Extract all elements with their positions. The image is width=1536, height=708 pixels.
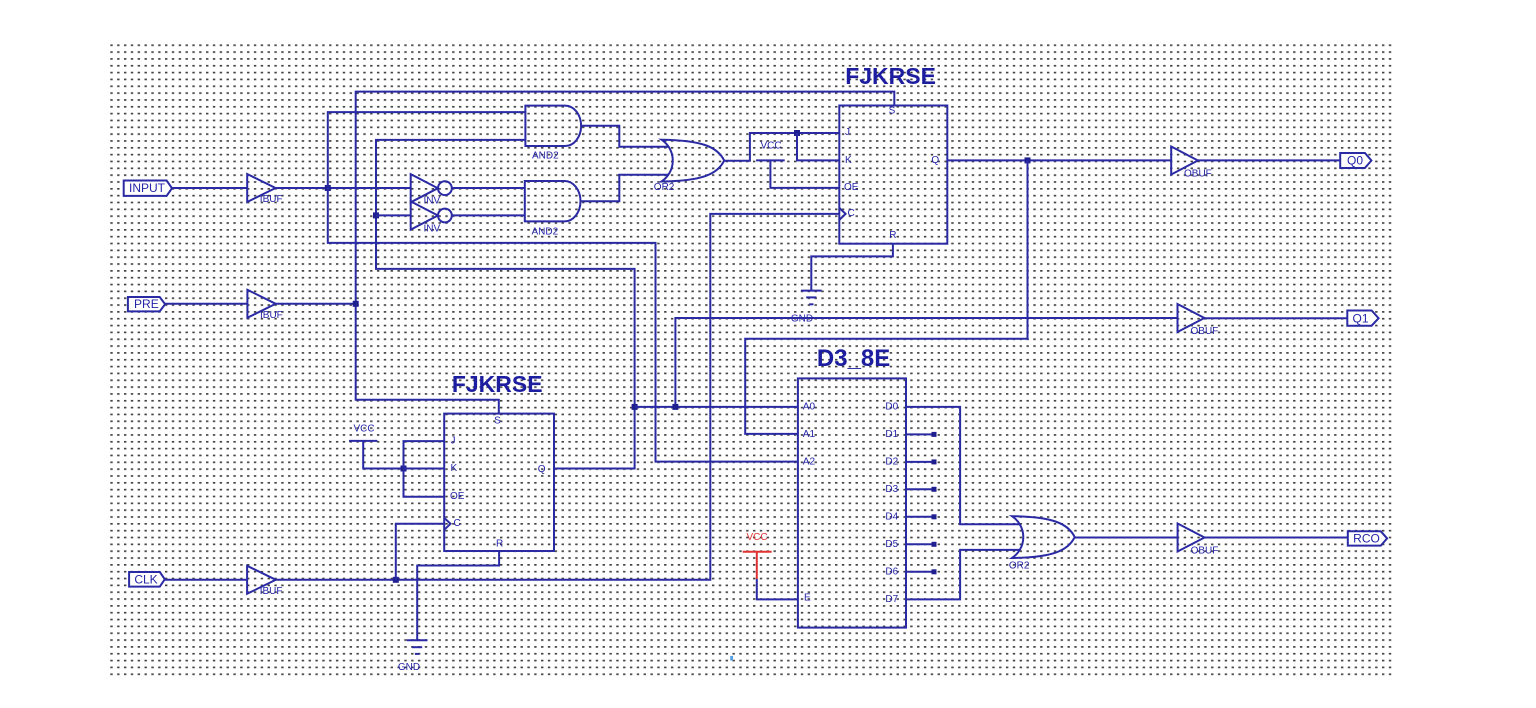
wire J-K-OE tie vertical [404,441,445,497]
svg-text:E: E [804,593,811,604]
svg-text:K: K [845,155,852,166]
wire INV1 out to AND2 upper [452,187,525,189]
svg-text:FJKRSE: FJKRSE [845,63,936,89]
inverter INV (lower) [411,201,452,234]
wire D0 to OR2 top input [906,407,1020,524]
wire top FF R to ground [811,244,893,291]
svg-text:GND: GND [398,662,420,673]
svg-text:INV: INV [424,224,441,235]
wire Q1 net from A0 line to OBUF [675,318,1177,407]
svg-text:D5: D5 [885,539,898,550]
svg-text:OBUF: OBUF [1191,326,1219,337]
pin stub D4 [906,514,937,519]
pin stub D3 [906,487,937,492]
buffer IBUF (PRE) [247,290,282,321]
flip-flop FJKRSE (lower) [444,371,554,551]
svg-text:A1: A1 [803,429,816,440]
wire IBUF out to INV input, through junction [276,187,411,189]
svg-text:K: K [451,463,458,474]
power VCC (red) [743,532,772,579]
svg-text:D7: D7 [885,594,898,605]
svg-text:OE: OE [450,491,465,502]
wire INV2 out to AND2 lower [452,214,525,216]
wire INV2 input stub [376,214,411,216]
input port PRE [128,297,165,311]
svg-text:VCC: VCC [746,532,767,543]
svg-text:D4: D4 [885,512,898,523]
svg-text:J: J [845,127,850,138]
junction PRE net [353,301,359,307]
decoder D3_8E [798,345,906,628]
svg-text:CLK: CLK [134,572,157,586]
junction J-K tie [794,130,800,136]
wire PRE net riser and S feeds [356,92,895,414]
svg-text:A0: A0 [803,402,816,413]
svg-text:A2: A2 [803,457,816,468]
svg-text:RCO: RCO [1353,532,1380,546]
wire INV2 input net vertical [376,140,635,469]
wire A0 line [635,406,798,408]
buffer IBUF (CLK) [247,566,282,597]
junction A0-Q1 tap [672,404,678,410]
svg-text:Q0: Q0 [1347,154,1363,168]
wire Q0 net down to A1 [745,160,1027,434]
pin stub D1 [906,432,937,437]
buffer OBUF (RCO) [1178,524,1219,557]
ground GND (top) [791,291,822,325]
wire VCC to E pin [757,579,798,599]
input port INPUT [124,181,172,196]
wire K stub (lower FF) [404,468,445,470]
inverter INV (upper) [411,174,452,206]
and-gate AND2 (lower) [525,181,581,238]
junction A0 net at Q riser [632,404,638,410]
svg-text:IBUF: IBUF [260,310,283,321]
svg-text:OBUF: OBUF [1184,169,1212,180]
svg-text:R: R [889,230,896,241]
wire OBUF to RCO port [1205,537,1348,539]
buffer OBUF (Q0) [1171,147,1212,180]
svg-text:VCC: VCC [353,424,374,435]
wire lower FF C tap [396,524,444,580]
svg-text:S: S [494,416,501,427]
ground GND (lower) [398,640,428,673]
svg-text:OR2: OR2 [654,182,675,193]
power VCC (top) [756,141,839,188]
wire OR2 out to OBUF [1075,537,1178,539]
wire OBUF to Q0 port [1198,159,1340,161]
svg-text:S: S [889,105,896,116]
wire AND2 lower out to OR2 bottom input [581,175,669,202]
input port CLK [129,572,165,587]
buffer OBUF (Q1) [1178,304,1219,337]
wire CLK IBUF out to top FF C riser [276,214,840,580]
pin stub D2 [906,459,937,464]
wire OBUF to Q1 port [1204,317,1347,319]
svg-text:Q: Q [931,155,939,166]
svg-text:Q1: Q1 [1352,311,1368,325]
junction INV2 input tap [373,212,379,218]
buffer IBUF (INPUT) [247,174,282,205]
svg-text:D3: D3 [885,484,898,495]
junction J-K-OE tie (lower FF) [401,466,407,472]
svg-text:OBUF: OBUF [1191,546,1219,557]
stray artifact [730,656,733,661]
svg-text:D2: D2 [885,457,898,468]
svg-text:IBUF: IBUF [260,586,283,597]
svg-text:C: C [848,208,855,219]
svg-text:Q: Q [538,464,546,475]
svg-text:OR2: OR2 [1009,561,1030,572]
or-gate OR2 (lower) [1009,516,1075,572]
svg-text:D1: D1 [885,429,898,440]
wire top FF Q to OBUF [947,159,1171,161]
flip-flop FJKRSE (top) [839,63,947,244]
wire AND2 upper out to OR2 top input [582,126,669,147]
svg-text:INPUT: INPUT [129,181,166,195]
junction CLK net [393,577,399,583]
wire OR2 out up to J [724,133,839,161]
svg-text:C: C [454,518,461,529]
or-gate OR2 (upper) [654,140,724,194]
output port Q1 [1347,311,1378,326]
junction on INPUT net [325,185,331,191]
svg-text:FJKRSE: FJKRSE [452,371,543,397]
wire PRE port to IBUF [165,303,247,305]
wire D7 to OR2 bottom input [906,550,1020,600]
svg-text:INV: INV [424,195,441,206]
svg-text:R: R [496,538,503,549]
svg-text:VCC: VCC [760,141,781,152]
pin stub D5 [906,542,937,547]
and-gate AND2 (upper) [525,106,581,162]
junction Q0 net [1025,157,1031,163]
svg-text:OE: OE [844,182,859,193]
output port RCO [1348,531,1387,545]
svg-text:AND2: AND2 [532,227,559,238]
svg-text:D0: D0 [885,402,898,413]
svg-text:D3_8E: D3_8E [817,345,890,372]
wire CLK port to IBUF [165,579,247,581]
svg-text:D6: D6 [885,567,898,578]
output port Q0 [1340,153,1371,168]
svg-text:AND2: AND2 [532,150,559,161]
svg-text:J: J [451,436,456,447]
wire INPUT port to IBUF [172,187,247,189]
wire PRE IBUF out to riser [276,303,356,305]
wire lower FF R to ground [417,551,499,640]
wire INPUT net vertical riser [328,112,798,462]
pin stub D6 [906,569,937,574]
svg-text:IBUF: IBUF [260,194,283,205]
svg-text:PRE: PRE [134,297,159,311]
wire J to K tie [797,133,839,160]
power VCC (lower left) [349,424,404,469]
